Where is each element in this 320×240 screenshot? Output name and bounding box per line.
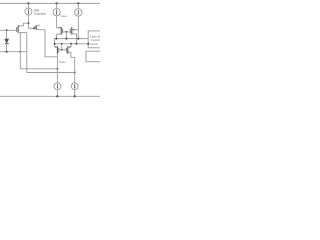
wire bias3 stem lower: [77, 16, 79, 38]
wire bias2 stem lower: [57, 16, 62, 28]
svg-text:Current: Current: [34, 12, 46, 16]
diode D1: [5, 39, 9, 44]
node mid left loop junction: [19, 51, 21, 53]
wire B2 to rail: [74, 90, 76, 97]
node M2 gate dot: [33, 27, 35, 29]
node gate tie dot: [66, 31, 68, 33]
node H5 gates: [61, 43, 63, 45]
wire M4 drain drop: [76, 34, 78, 44]
wire tail stem lower: [27, 15, 29, 28]
wire B1 to rail: [56, 90, 58, 97]
wire M5 column: [56, 54, 58, 83]
node input junction: [6, 29, 8, 31]
wire cathode drop: [6, 43, 8, 51]
node H4 gates: [65, 38, 67, 40]
wire bus upper H4: [55, 38, 89, 40]
node tail split: [27, 22, 29, 24]
transistor M1: [17, 25, 27, 32]
transistor M2: [35, 25, 45, 30]
wire feedback mid horizontal: [0, 51, 27, 53]
node loop B junction: [74, 72, 76, 74]
wire gate tie M3 M4: [63, 31, 71, 33]
current source B2: [71, 83, 78, 90]
current source I3: [75, 9, 82, 16]
node H5 M4: [76, 43, 78, 45]
transistor M4: [70, 27, 78, 35]
svg-text:IBIAS1: IBIAS1: [60, 13, 68, 18]
wire M6 drain jog: [71, 52, 75, 83]
wire gate tie rise: [61, 44, 63, 50]
wire left loop A: [20, 33, 57, 69]
wire input gate M1: [0, 29, 17, 31]
transistor M5: [55, 46, 59, 54]
node B2 rail: [74, 95, 76, 97]
node loop A junction: [56, 68, 58, 70]
box class control circuit: [88, 31, 101, 48]
transistor M3: [56, 27, 62, 35]
wire bus link: [54, 39, 56, 47]
wire bias2 stem upper: [56, 3, 58, 8]
wire VDD top rail: [0, 2, 100, 4]
wire gate tie M5 M6: [59, 49, 67, 51]
wire gate tie drop: [65, 32, 67, 39]
wire tail to M1 source: [20, 23, 29, 26]
node diode mid junction: [6, 51, 8, 53]
node H5 corner: [54, 43, 56, 45]
wire VSS bottom rail: [0, 95, 100, 97]
wire M3 drain drop: [55, 34, 57, 38]
svg-text:IBIAS2: IBIAS2: [59, 59, 67, 64]
wire gate feed M2: [28, 27, 33, 29]
wire M2 drain drop: [45, 30, 57, 57]
box output stage: [86, 51, 101, 62]
wire bias3 stem upper: [77, 3, 79, 8]
node B1 rail: [56, 95, 58, 97]
node box H5 terminal: [87, 43, 89, 45]
svg-text:Circuit: Circuit: [90, 42, 98, 46]
wire left loop B: [27, 33, 75, 73]
wire M6 top to H5: [70, 44, 72, 47]
wire tail stem upper: [27, 3, 29, 8]
node tail rail junction: [27, 2, 29, 4]
wire bus lower H5: [55, 43, 89, 45]
current source I2: [53, 9, 60, 16]
current source tail I1: [25, 8, 32, 15]
node H5 M6: [70, 43, 72, 45]
wire anode drop: [6, 30, 8, 39]
node H4 M3: [55, 38, 57, 40]
node H4 bias3: [77, 38, 79, 40]
current source B1: [54, 83, 61, 90]
transistor M6: [66, 46, 71, 54]
node bias3 rail junction: [77, 2, 79, 4]
node gate tie lower dot: [61, 49, 63, 51]
node bias2 rail junction: [56, 2, 58, 4]
